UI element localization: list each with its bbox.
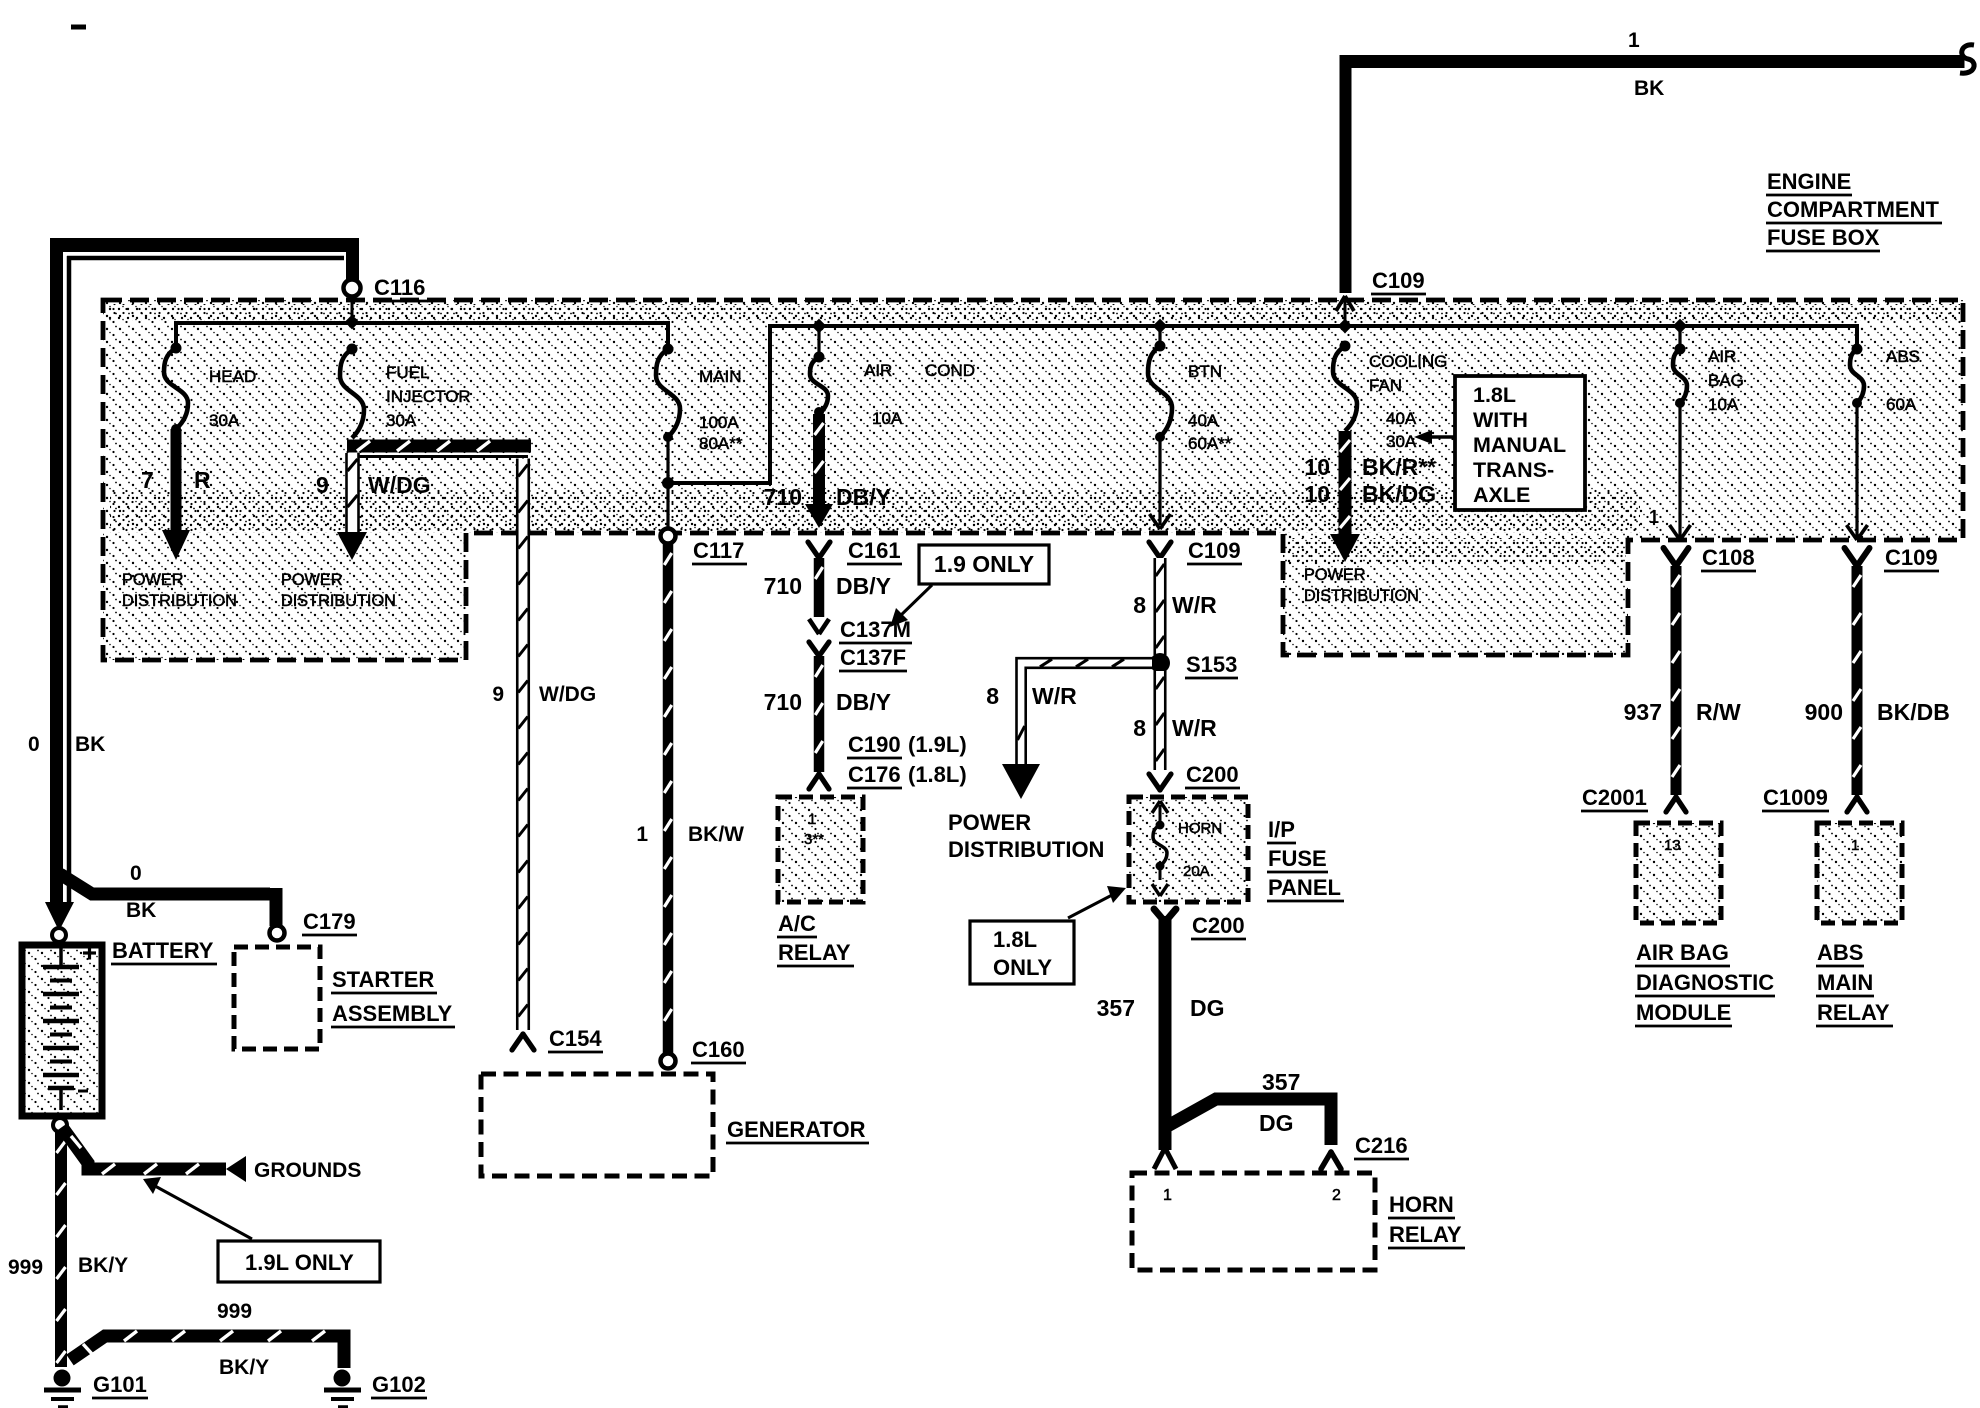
- svg-text:1.8L: 1.8L: [993, 927, 1037, 952]
- connector C200 (bottom): [1154, 909, 1246, 939]
- svg-text:C154: C154: [549, 1026, 602, 1051]
- wire 0 BK battery to starter (C179): [60, 862, 283, 926]
- svg-text:C116: C116: [374, 275, 425, 300]
- svg-text:0: 0: [28, 733, 40, 756]
- svg-text:BK: BK: [1634, 77, 1664, 100]
- svg-text:3**: 3**: [804, 831, 824, 848]
- svg-text:MAIN: MAIN: [699, 367, 742, 386]
- wire: battery positive feed to C116: [45, 238, 359, 931]
- svg-text:1.9L ONLY: 1.9L ONLY: [245, 1250, 354, 1275]
- svg-text:DB/Y: DB/Y: [836, 689, 891, 715]
- svg-text:357: 357: [1262, 1069, 1300, 1095]
- svg-text:1.9 ONLY: 1.9 ONLY: [934, 551, 1034, 577]
- svg-text:S153: S153: [1186, 652, 1237, 677]
- svg-text:COND: COND: [925, 361, 975, 380]
- svg-text:POWER: POWER: [281, 571, 343, 589]
- wire 999 BK/Y battery negative to G101: [8, 1132, 128, 1367]
- svg-text:710: 710: [764, 484, 802, 510]
- svg-text:HORN: HORN: [1178, 820, 1222, 837]
- svg-text:60A: 60A: [1886, 395, 1917, 414]
- wire: MAIN fuse output to C117 and riser to right bus: [662, 326, 822, 529]
- svg-text:8: 8: [1133, 715, 1146, 741]
- svg-text:937: 937: [1624, 699, 1662, 725]
- connector C109 (BTN output): [1149, 538, 1242, 564]
- wire 999 BK/Y G101 to G102: [70, 1300, 344, 1379]
- engine compartment fuse box outline (dashed) with stippled interior: [103, 300, 1963, 660]
- svg-text:20A: 20A: [1183, 863, 1210, 880]
- svg-text:1: 1: [1163, 1187, 1172, 1204]
- svg-text:POWER: POWER: [1304, 566, 1366, 584]
- connector C179: [270, 909, 358, 941]
- wire 9 W/DG: fuel injector output arrow: [316, 453, 431, 560]
- svg-text:C117: C117: [693, 538, 744, 563]
- svg-text:RELAY: RELAY: [778, 940, 851, 965]
- connector C137M: [809, 617, 912, 643]
- svg-text:8: 8: [1133, 592, 1146, 618]
- svg-text:DB/Y: DB/Y: [836, 484, 891, 510]
- svg-text:DG: DG: [1259, 1110, 1294, 1136]
- wire to GROUNDS arrow: [62, 1127, 361, 1182]
- svg-text:30A: 30A: [209, 411, 240, 430]
- ground G102: [324, 1370, 427, 1408]
- svg-text:C161: C161: [848, 538, 901, 563]
- wire 710 DB/Y: air cond fuse output arrow to C161: [764, 414, 891, 528]
- svg-text:C216: C216: [1355, 1133, 1408, 1158]
- starter assembly box: [234, 947, 455, 1049]
- svg-text:PANEL: PANEL: [1268, 875, 1341, 900]
- svg-text:30A: 30A: [386, 411, 417, 430]
- I/P fuse panel box with HORN 20A fuse: [1129, 797, 1344, 902]
- svg-text:RELAY: RELAY: [1817, 1000, 1890, 1025]
- svg-text:HEAD: HEAD: [209, 367, 256, 386]
- svg-text:G102: G102: [372, 1372, 426, 1397]
- connector C1009: [1762, 785, 1867, 812]
- svg-text:DISTRIBUTION: DISTRIBUTION: [281, 592, 396, 610]
- callout box 1.9 ONLY with arrow to C137M: [890, 545, 1049, 627]
- label ENGINE COMPARTMENT FUSE BOX: [1766, 169, 1942, 251]
- connector C117: [661, 529, 748, 565]
- wire: BTN fuse output to C109: [1150, 437, 1171, 529]
- svg-text:BATTERY: BATTERY: [112, 938, 214, 963]
- svg-text:10A: 10A: [872, 409, 903, 428]
- svg-text:710: 710: [764, 573, 802, 599]
- wire 10 BK/R** / BK/DG: cooling fan output arrow to power distribution: [1304, 431, 1436, 562]
- wire: bus feeding AIR COND / BTN / COOLING FAN / AIR BAG / ABS: [820, 326, 1857, 349]
- svg-text:W/R: W/R: [1032, 683, 1077, 709]
- svg-text:DIAGNOSTIC: DIAGNOSTIC: [1636, 970, 1774, 995]
- svg-text:AIR: AIR: [1708, 347, 1736, 366]
- wire 7 R: HEAD fuse output arrow to power distribution: [141, 429, 211, 560]
- svg-text:1: 1: [1851, 837, 1859, 854]
- svg-text:C160: C160: [692, 1037, 745, 1062]
- svg-text:COOLING: COOLING: [1369, 352, 1447, 371]
- svg-text:I/P: I/P: [1268, 817, 1295, 842]
- svg-text:BK/DG: BK/DG: [1362, 481, 1436, 507]
- svg-text:13: 13: [1664, 837, 1681, 854]
- wire 357 DG branch to C216 / horn relay pin 2: [1164, 1069, 1331, 1145]
- svg-text:BK/W: BK/W: [688, 823, 744, 846]
- svg-text:C2001: C2001: [1582, 785, 1647, 810]
- svg-text:10A: 10A: [1708, 395, 1739, 414]
- splice S153: [1150, 652, 1238, 678]
- svg-text:R/W: R/W: [1696, 699, 1741, 725]
- svg-text:C137F: C137F: [840, 645, 906, 670]
- connector C116: [344, 275, 429, 322]
- svg-text:9: 9: [316, 472, 329, 498]
- svg-text:AIR: AIR: [864, 361, 892, 380]
- label power distribution (second): [281, 571, 396, 610]
- connector C109 (ABS output): [1845, 545, 1940, 571]
- fuse HEAD 30A: [164, 343, 256, 435]
- svg-text:W/DG: W/DG: [368, 472, 431, 498]
- svg-text:BK: BK: [75, 733, 105, 756]
- label POWER DISTRIBUTION (lower): [948, 810, 1104, 862]
- svg-text:40A: 40A: [1386, 409, 1417, 428]
- connector C137F: [809, 642, 907, 671]
- horn relay box: [1132, 1173, 1465, 1270]
- wire 710 DB/Y from C161 to C137M: [764, 558, 891, 617]
- svg-text:2: 2: [1332, 1187, 1341, 1204]
- wire 900 BK/DB from C109 to C1009: [1805, 566, 1950, 795]
- svg-text:MODULE: MODULE: [1636, 1000, 1731, 1025]
- connector C2001: [1581, 785, 1686, 812]
- svg-text:C190: C190: [848, 732, 901, 757]
- generator box: [481, 1074, 869, 1176]
- wire 357 DG from C200 to horn relay pin 1: [1097, 916, 1225, 1169]
- svg-text:ONLY: ONLY: [993, 955, 1052, 980]
- svg-text:999: 999: [8, 1256, 43, 1279]
- svg-text:C109: C109: [1372, 268, 1425, 293]
- connector C200 (top): [1149, 762, 1240, 790]
- svg-text:TRANS-: TRANS-: [1473, 458, 1554, 482]
- svg-text:W/R: W/R: [1172, 715, 1217, 741]
- connector C216: [1321, 1133, 1409, 1169]
- wire 8 W/R from C109 to S153: [1133, 558, 1217, 655]
- svg-text:ABS: ABS: [1817, 940, 1863, 965]
- svg-text:10: 10: [1304, 481, 1330, 507]
- svg-text:BK/DB: BK/DB: [1877, 699, 1950, 725]
- svg-text:R: R: [194, 467, 211, 493]
- svg-text:GENERATOR: GENERATOR: [727, 1117, 866, 1142]
- svg-text:C109: C109: [1885, 545, 1938, 570]
- callout box 1.9L ONLY with arrow to ground wire: [143, 1177, 380, 1282]
- svg-text:BK/R**: BK/R**: [1362, 454, 1436, 480]
- svg-text:BK: BK: [126, 899, 156, 922]
- svg-text:W/R: W/R: [1172, 592, 1217, 618]
- label power distribution (left): [122, 571, 237, 610]
- svg-text:BK/Y: BK/Y: [78, 1254, 128, 1277]
- svg-text:30A: 30A: [1386, 432, 1417, 451]
- connector C161: [808, 538, 902, 564]
- svg-text:999: 999: [217, 1300, 252, 1323]
- svg-text:COMPARTMENT: COMPARTMENT: [1767, 197, 1939, 222]
- svg-text:C108: C108: [1702, 545, 1755, 570]
- svg-text:AXLE: AXLE: [1473, 483, 1530, 507]
- svg-text:C176: C176: [848, 762, 901, 787]
- svg-text:1: 1: [808, 811, 816, 828]
- wire: ABS fuse output to C109 (right): [1847, 403, 1868, 540]
- svg-text:1: 1: [1628, 29, 1640, 52]
- svg-text:HORN: HORN: [1389, 1192, 1454, 1217]
- svg-text:G101: G101: [93, 1372, 147, 1397]
- svg-text:FUEL: FUEL: [386, 363, 429, 382]
- svg-text:7: 7: [141, 467, 154, 493]
- svg-text:100A: 100A: [699, 413, 739, 432]
- fuse COOLING FAN 40A/30A: [1333, 319, 1447, 451]
- svg-text:BK/Y: BK/Y: [219, 1356, 269, 1379]
- svg-text:40A: 40A: [1188, 411, 1219, 430]
- svg-text:ENGINE: ENGINE: [1767, 169, 1851, 194]
- svg-text:RELAY: RELAY: [1389, 1222, 1462, 1247]
- air bag diagnostic module box: [1635, 823, 1775, 1026]
- svg-text:357: 357: [1097, 995, 1135, 1021]
- svg-text:DISTRIBUTION: DISTRIBUTION: [122, 592, 237, 610]
- svg-text:C1009: C1009: [1763, 785, 1828, 810]
- svg-text:80A**: 80A**: [699, 434, 743, 453]
- svg-text:C200: C200: [1186, 762, 1239, 787]
- svg-text:60A**: 60A**: [1188, 434, 1232, 453]
- wire 8 W/R branch from S153 to power distribution arrow: [986, 658, 1152, 799]
- connector C190 (1.9L) / C176 (1.8L): [809, 732, 967, 789]
- svg-text:C179: C179: [303, 909, 356, 934]
- svg-text:0: 0: [130, 862, 142, 885]
- wire: air bag fuse output to C108: [1649, 403, 1691, 540]
- svg-text:C109: C109: [1188, 538, 1241, 563]
- ABS main relay box: [1816, 823, 1902, 1026]
- wire 8 W/R from S153 to C200: [1133, 671, 1217, 770]
- wire 1 BK: feed from C109 along top: [1340, 29, 1975, 293]
- svg-text:900: 900: [1805, 699, 1843, 725]
- connector C109 (top, cooling fan feed): [1336, 268, 1426, 326]
- fuse ABS 60A: [1850, 344, 1920, 415]
- battery: [22, 928, 217, 1132]
- svg-text:GROUNDS: GROUNDS: [254, 1159, 361, 1182]
- svg-text:INJECTOR: INJECTOR: [386, 387, 471, 406]
- wire W/DG branch from fuel injector fuse to C154: [347, 440, 531, 457]
- svg-text:DB/Y: DB/Y: [836, 573, 891, 599]
- wire 710 DB/Y from C137F to C190/C176: [764, 656, 891, 772]
- wire label 0 BK (battery feed): [28, 733, 105, 756]
- svg-text:MANUAL: MANUAL: [1473, 433, 1566, 457]
- svg-text:(1.8L): (1.8L): [908, 762, 967, 787]
- connector C108: [1664, 545, 1757, 571]
- label power distribution (right): [1304, 566, 1419, 605]
- connector C154: [512, 1026, 603, 1052]
- svg-text:DISTRIBUTION: DISTRIBUTION: [948, 837, 1104, 862]
- svg-text:FUSE BOX: FUSE BOX: [1767, 225, 1880, 250]
- svg-text:9: 9: [492, 683, 504, 706]
- svg-text:1: 1: [1649, 507, 1659, 527]
- wire 937 R/W from C108 to C2001: [1624, 566, 1741, 795]
- svg-text:10: 10: [1304, 454, 1330, 480]
- fuse BTN 40A/60A**: [1148, 319, 1232, 453]
- svg-text:DG: DG: [1190, 995, 1225, 1021]
- svg-text:FUSE: FUSE: [1268, 846, 1327, 871]
- wire 9 W/DG vertical to C154: [492, 459, 596, 1031]
- svg-text:WITH: WITH: [1473, 408, 1528, 432]
- fuse FUEL INJECTOR 30A: [340, 344, 471, 439]
- svg-text:BTN: BTN: [1188, 362, 1222, 381]
- svg-text:W/DG: W/DG: [539, 683, 596, 706]
- svg-text:ASSEMBLY: ASSEMBLY: [332, 1001, 453, 1026]
- svg-text:FAN: FAN: [1369, 376, 1402, 395]
- svg-text:MAIN: MAIN: [1817, 970, 1873, 995]
- fuse MAIN 100A/80A**: [656, 344, 743, 454]
- ground G101: [44, 1370, 148, 1408]
- svg-text:BAG: BAG: [1708, 371, 1744, 390]
- svg-text:DISTRIBUTION: DISTRIBUTION: [1304, 587, 1419, 605]
- A/C relay box: [777, 797, 863, 966]
- svg-text:1.8L: 1.8L: [1473, 383, 1516, 407]
- svg-text:POWER: POWER: [948, 810, 1031, 835]
- svg-text:AIR BAG: AIR BAG: [1636, 940, 1729, 965]
- wire: bus from C116 to HEAD / FUEL INJECTOR / MAIN fuses: [176, 315, 668, 348]
- callout box 1.8L WITH MANUAL TRANS-AXLE: [1414, 376, 1585, 510]
- fuse AIR BAG 10A: [1673, 319, 1744, 414]
- callout box 1.8L ONLY with arrow to I/P fuse panel: [970, 886, 1126, 984]
- wire 1 BK/W from C117 to C160: [636, 544, 744, 1053]
- svg-text:710: 710: [764, 689, 802, 715]
- svg-text:A/C: A/C: [778, 911, 816, 936]
- fuse AIR COND 10A: [810, 319, 975, 428]
- svg-text:8: 8: [986, 683, 999, 709]
- svg-text:POWER: POWER: [122, 571, 184, 589]
- svg-text:ABS: ABS: [1886, 347, 1920, 366]
- svg-text:(1.9L): (1.9L): [908, 732, 967, 757]
- svg-text:C200: C200: [1192, 913, 1245, 938]
- svg-text:STARTER: STARTER: [332, 967, 434, 992]
- svg-text:1: 1: [636, 823, 648, 846]
- dash mark top-left margin: [71, 25, 86, 30]
- connector C160: [661, 1037, 747, 1069]
